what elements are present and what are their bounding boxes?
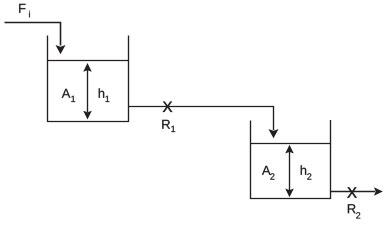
liquid level line tank T2 xyxy=(251,143,331,145)
liquid level line tank T1 xyxy=(48,60,129,62)
label A1 xyxy=(62,89,75,102)
wire inlet Fi xyxy=(5,23,61,46)
label Fi xyxy=(19,4,30,17)
arrowhead level h1 bottom xyxy=(83,111,92,120)
level arrow h2 shaft xyxy=(289,151,291,191)
label R2 xyxy=(348,204,360,218)
label R1 xyxy=(162,120,175,132)
tank T1 walls xyxy=(48,36,129,122)
wire outlet tank T1 xyxy=(129,107,274,131)
arrowhead inlet Fi xyxy=(56,45,66,54)
arrowhead inlet tank T2 xyxy=(269,129,279,138)
valve X R1 xyxy=(163,102,172,112)
level arrow h1 shaft xyxy=(87,70,89,112)
arrowhead level h1 top xyxy=(83,63,92,72)
valve X R2 xyxy=(347,187,356,197)
arrowhead level h2 top xyxy=(285,145,294,154)
tank T2 walls xyxy=(251,120,331,199)
label h2 xyxy=(301,165,312,179)
arrowhead level h2 bottom xyxy=(285,189,294,198)
arrowhead outlet R2 xyxy=(374,187,383,196)
wire outlet tank T2 xyxy=(331,191,376,193)
label h1 xyxy=(99,88,110,102)
label A2 xyxy=(262,166,275,180)
